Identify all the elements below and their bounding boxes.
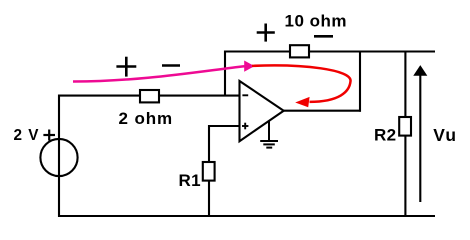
wire: feedback left vertical down to inverting input [224, 51, 226, 97]
polarity - (right of 10 ohm) [314, 35, 333, 38]
svg-text:10 ohm: 10 ohm [285, 12, 348, 31]
svg-text:2 V: 2 V [14, 127, 40, 144]
op-amp non-inverting input label + [242, 123, 248, 130]
wire: non-inverting input horizontal [209, 125, 240, 127]
wire: R1 branch vertical [208, 125, 210, 217]
voltage source V1 circle [40, 139, 77, 176]
wire: output vertical up to top rail [359, 51, 361, 112]
svg-text:R1: R1 [179, 171, 202, 190]
wire: R2 branch vertical [404, 51, 406, 218]
resistor 10 ohm (box) [290, 45, 309, 57]
resistor R2 (box) [399, 117, 411, 136]
svg-text:R2: R2 [374, 125, 397, 144]
wire: top feedback rail [224, 50, 435, 52]
red feedback-loop arrow [252, 65, 351, 107]
polarity + (above 2 ohm wire) [116, 57, 136, 77]
wire: inverting input horizontal (through 2 ohm) [58, 95, 240, 97]
svg-text:Vu: Vu [433, 125, 457, 145]
op-amp inverting input label - [242, 94, 248, 96]
wire: left vertical through 2V source [58, 95, 60, 217]
wire: op-amp output horizontal [284, 110, 362, 112]
polarity - (above 2 ohm wire, right) [162, 64, 180, 67]
Vu output arrow [414, 66, 426, 202]
polarity + of source [43, 130, 55, 141]
svg-text:2 ohm: 2 ohm [119, 109, 174, 128]
polarity + (left of 10 ohm) [257, 24, 275, 42]
op-amp U1 triangle [240, 81, 284, 141]
resistor 2 ohm (box) [140, 90, 159, 102]
wire: bottom rail [58, 215, 435, 217]
ground at op-amp [260, 122, 278, 148]
resistor R1 (box) [203, 162, 215, 181]
magenta signal-flow arrow (input path) [73, 61, 255, 82]
